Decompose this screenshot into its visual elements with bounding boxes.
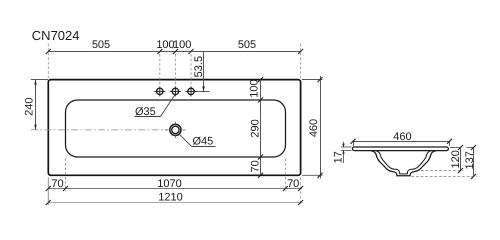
bottom extension lines	[48, 159, 300, 206]
svg-text:460: 460	[308, 119, 320, 137]
faucet hole 1	[154, 86, 165, 96]
inner right dimension chain 100/290/70	[249, 77, 263, 178]
dimension 240 (left)	[24, 80, 48, 130]
svg-text:100: 100	[249, 79, 261, 97]
dashed level line bowl depth	[421, 170, 464, 172]
dimension 53.5	[193, 52, 209, 92]
svg-text:70: 70	[51, 178, 63, 190]
top dimension line 505/100/100/505	[46, 39, 303, 54]
svg-text:505: 505	[92, 39, 110, 51]
dimension 137 (section right)	[464, 145, 476, 179]
svg-text:1070: 1070	[157, 178, 181, 190]
bottom dimension line 1210	[46, 191, 303, 205]
dimension 17 (section left)	[332, 142, 351, 164]
svg-text:505: 505	[238, 39, 256, 51]
svg-text:Ø45: Ø45	[193, 136, 214, 148]
horizontal centerline	[31, 129, 169, 131]
dimension 120 (section right)	[450, 145, 463, 173]
svg-text:Ø35: Ø35	[135, 106, 156, 118]
svg-text:70: 70	[250, 160, 262, 172]
bottom dimension line 70/1070/70	[46, 178, 303, 191]
leader and label diameter 35	[135, 95, 176, 118]
faucet hole 3	[186, 86, 197, 96]
svg-text:17: 17	[332, 151, 344, 163]
svg-text:460: 460	[393, 131, 411, 143]
faucet hole 2	[170, 86, 181, 96]
leader and label diameter 45	[179, 134, 215, 147]
dimension 460 (section top)	[351, 131, 453, 146]
section view bowl inner wall	[376, 151, 431, 174]
dimension 460 (right of plan)	[302, 76, 323, 179]
section view rim slab	[352, 147, 448, 151]
svg-text:53.5: 53.5	[193, 56, 205, 77]
svg-text:120: 120	[450, 150, 462, 168]
drain (plan view)	[165, 122, 185, 139]
dashed level line drain depth	[412, 176, 477, 178]
basin bowl rounded rectangle (plan view)	[66, 100, 286, 157]
svg-text:290: 290	[250, 119, 262, 137]
svg-text:137: 137	[464, 151, 476, 169]
section view bowl outer wall	[371, 151, 436, 176]
svg-text:100: 100	[156, 39, 174, 51]
svg-text:100: 100	[173, 39, 191, 51]
svg-text:70: 70	[287, 178, 299, 190]
svg-text:1210: 1210	[158, 191, 182, 203]
svg-text:240: 240	[24, 98, 36, 116]
extension lines above plan view	[48, 44, 300, 87]
basin outer rim rectangle (plan view)	[48, 80, 300, 176]
svg-text:CN7024: CN7024	[32, 28, 80, 43]
title CN7024	[32, 28, 80, 43]
